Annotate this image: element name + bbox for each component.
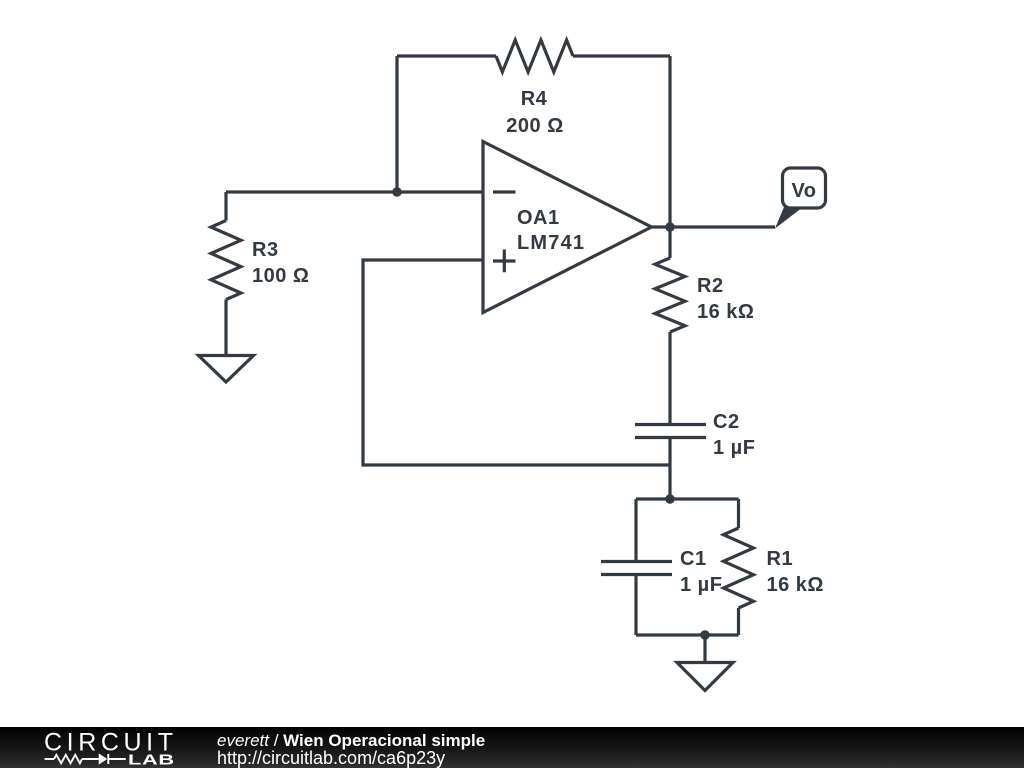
wire: R2 top lead [668, 227, 671, 258]
flag Vo pointer [775, 207, 803, 229]
wire: feedback left vertical (node A up to R4) [395, 56, 398, 192]
svg-text:200 Ω: 200 Ω [506, 115, 563, 137]
op-amp OA1 [483, 142, 652, 313]
op-amp minus symbol [493, 190, 516, 193]
wire: R1 branch upper [737, 499, 740, 528]
wire: C2 bottom lead down to box node [668, 438, 671, 500]
svg-text:Vo: Vo [791, 180, 816, 202]
svg-text:C2: C2 [713, 411, 740, 433]
svg-text:R2: R2 [697, 275, 724, 297]
svg-text:1 µF: 1 µF [680, 574, 722, 596]
wire: inverting input horizontal from R3 top to op-amp [226, 190, 483, 193]
svg-text:100 Ω: 100 Ω [252, 265, 309, 287]
capacitor C1 [601, 562, 672, 575]
svg-text:R1: R1 [767, 548, 794, 570]
wire: R4 right vertical down to output node [668, 56, 671, 227]
footer url line [217, 748, 445, 768]
resistor R2 [655, 258, 685, 332]
svg-text:LM741: LM741 [517, 232, 585, 254]
svg-text:OA1: OA1 [517, 207, 560, 229]
op-amp plus symbol [493, 250, 516, 273]
svg-text:C1: C1 [680, 548, 707, 570]
CircuitLab logo [0, 727, 200, 768]
wire: R2 bottom lead down to C2 [668, 332, 671, 425]
capacitor C2 [635, 425, 706, 438]
node: box top junction [665, 494, 674, 503]
wire: R3 top lead [224, 192, 227, 221]
wire: bottom ground lead [703, 635, 706, 663]
resistor R3 [211, 221, 241, 300]
resistor R1 [724, 528, 754, 608]
wire: non-inverting input loop (op-amp to C2 bottom) [363, 260, 670, 465]
ground symbol below R3 [199, 356, 254, 383]
svg-text:R3: R3 [252, 239, 279, 261]
svg-text:1 µF: 1 µF [713, 437, 755, 459]
wire: R3 bottom lead to ground [224, 300, 227, 356]
footer bar [0, 727, 1024, 768]
wire: top lead left of R4 [397, 54, 496, 57]
logo doodle: resistor and diode [45, 754, 126, 764]
svg-text:R4: R4 [521, 88, 548, 110]
footer title line [217, 731, 485, 751]
wire: top lead right of R4 [573, 54, 670, 57]
node A: junction at inverting input [392, 187, 401, 196]
wire: C1 branch lower [634, 575, 637, 636]
node: box bottom junction [700, 630, 709, 639]
svg-text:16 kΩ: 16 kΩ [767, 574, 824, 596]
wire: box bottom edge [636, 633, 739, 636]
wire: C1 branch upper [634, 499, 637, 562]
wire: R1 branch lower [737, 608, 740, 635]
node: output junction [665, 222, 674, 231]
wire: output horizontal to Vo flag [652, 225, 776, 228]
svg-text:16 kΩ: 16 kΩ [697, 301, 754, 323]
flag Vo box [783, 168, 826, 208]
svg-text:LAB: LAB [128, 751, 175, 768]
wire: box top edge [636, 497, 739, 500]
logo diode triangle [99, 753, 108, 764]
ground symbol below box [677, 663, 733, 691]
resistor R4 [496, 40, 573, 72]
